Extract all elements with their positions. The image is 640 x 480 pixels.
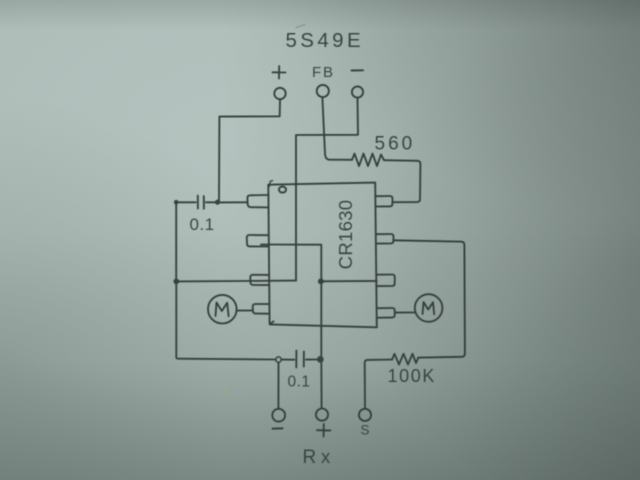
- svg-text:100K: 100K: [388, 366, 436, 386]
- svg-text:S: S: [361, 423, 370, 438]
- svg-text:5S49E: 5S49E: [286, 29, 365, 52]
- svg-text:0.1: 0.1: [190, 215, 215, 234]
- svg-text:FB: FB: [312, 64, 335, 81]
- svg-text:0.1: 0.1: [288, 374, 311, 391]
- svg-text:CR1630: CR1630: [335, 200, 356, 270]
- svg-text:x: x: [321, 446, 331, 467]
- svg-text:560: 560: [375, 134, 416, 155]
- svg-text:R: R: [303, 447, 317, 468]
